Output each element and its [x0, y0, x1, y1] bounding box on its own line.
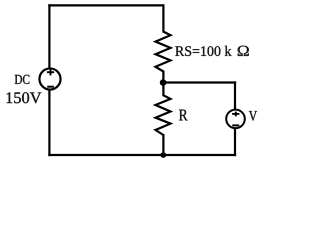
voltmeter V: circle body [226, 110, 245, 129]
label RS=100 k [175, 46, 231, 56]
node junction dot: RS bottom / R top / voltmeter tap [160, 79, 167, 86]
label Ohm [238, 46, 249, 56]
wire RS to R lead (through node A) [162, 71, 164, 97]
dc source plus terminal mark [47, 69, 54, 75]
wire bottom rail [49, 154, 235, 156]
node junction dot: bottom rail [160, 152, 166, 158]
wire RS top lead [162, 4, 164, 32]
label R [179, 110, 188, 121]
label DC [15, 75, 30, 84]
wire top rail [49, 4, 163, 6]
voltmeter plus terminal mark [232, 112, 239, 117]
label 150V [7, 92, 42, 103]
wire voltmeter branch (vertical) [234, 83, 236, 156]
voltmeter minus terminal mark [232, 124, 239, 126]
dc source V1: circle body [39, 68, 60, 89]
resistor RS [156, 32, 171, 72]
resistor R [156, 95, 171, 135]
wire left rail [48, 5, 50, 155]
dc source minus terminal mark [47, 86, 54, 88]
label V [249, 111, 257, 121]
wire R bottom lead [162, 134, 164, 155]
wire node A to voltmeter (horizontal) [163, 81, 235, 83]
